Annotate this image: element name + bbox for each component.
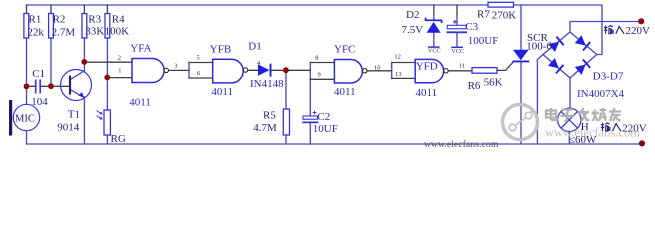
svg-text:≤60W: ≤60W (569, 134, 597, 146)
svg-text:C2: C2 (317, 111, 330, 123)
svg-text:220V: 220V (626, 25, 651, 37)
svg-text:7.5V: 7.5V (402, 24, 424, 36)
svg-text:56K: 56K (484, 76, 503, 88)
svg-text:MIC: MIC (15, 114, 35, 125)
svg-text:IN4007X4: IN4007X4 (577, 88, 625, 100)
svg-text:D2: D2 (406, 9, 419, 21)
svg-text:1: 1 (118, 67, 121, 74)
svg-text:2: 2 (118, 55, 121, 62)
svg-text:13: 13 (395, 71, 402, 78)
svg-text:4011: 4011 (334, 86, 356, 98)
svg-text:RG: RG (111, 133, 126, 145)
svg-text:www.elecfans.com: www.elecfans.com (424, 139, 499, 149)
svg-text:D1: D1 (248, 40, 261, 52)
svg-text:3: 3 (174, 62, 177, 69)
svg-text:D3-D7: D3-D7 (593, 70, 624, 82)
svg-text:220V: 220V (622, 122, 647, 134)
svg-text:4011: 4011 (211, 86, 233, 98)
svg-text:5: 5 (197, 54, 200, 61)
svg-text:C3: C3 (465, 21, 478, 33)
svg-text:2.7M: 2.7M (52, 26, 76, 38)
svg-text:100UF: 100UF (468, 35, 499, 47)
svg-text:4011: 4011 (129, 97, 151, 109)
svg-text:10: 10 (374, 64, 381, 71)
svg-text:33K: 33K (85, 25, 104, 37)
svg-text:R4: R4 (112, 14, 125, 26)
svg-text:H: H (581, 121, 589, 133)
svg-text:22k: 22k (27, 26, 44, 38)
svg-text:104: 104 (31, 96, 48, 108)
svg-text:T1: T1 (68, 109, 80, 121)
svg-text:9014: 9014 (57, 122, 80, 134)
svg-text:11: 11 (459, 63, 465, 70)
svg-text:C1: C1 (32, 68, 45, 80)
svg-text:VCC: VCC (451, 48, 464, 55)
svg-text:4.7M: 4.7M (253, 122, 277, 134)
svg-text:4011: 4011 (416, 87, 438, 99)
svg-text:R5: R5 (263, 109, 276, 121)
svg-text:IN4148: IN4148 (250, 78, 284, 90)
svg-text:8: 8 (315, 54, 318, 61)
svg-text:R7: R7 (477, 9, 490, 21)
svg-text:270K: 270K (492, 9, 517, 21)
svg-text:100K: 100K (105, 25, 130, 37)
svg-text:9: 9 (318, 72, 321, 79)
svg-text:12: 12 (394, 53, 401, 60)
svg-text:R3: R3 (88, 14, 101, 26)
svg-text:100-6: 100-6 (526, 41, 552, 53)
svg-text:YFB: YFB (210, 44, 231, 56)
svg-text:R6: R6 (468, 80, 481, 92)
svg-text:YFD: YFD (416, 60, 438, 72)
svg-text:YFC: YFC (334, 44, 355, 56)
svg-text:VCC: VCC (428, 48, 441, 55)
svg-text:R2: R2 (53, 14, 66, 26)
svg-text:10UF: 10UF (313, 123, 338, 135)
svg-text:YFA: YFA (130, 42, 151, 54)
svg-text:R1: R1 (29, 14, 42, 26)
